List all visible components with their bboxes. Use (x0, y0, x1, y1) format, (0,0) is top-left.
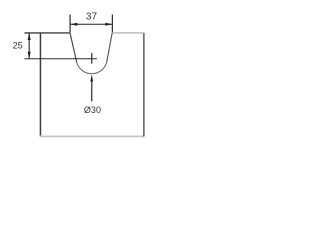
svg-text:Ø30: Ø30 (84, 105, 101, 115)
part body left edge (39, 33, 41, 137)
notch left slant edge (70, 33, 77, 62)
25-dim bottom arrowhead (28, 52, 31, 59)
notch bottom arc (R15.5) (77, 61, 107, 73)
37-dim right arrowhead (105, 23, 112, 26)
part body bottom edge (40, 135, 144, 137)
37-dim dimension line (70, 23, 112, 25)
diameter leader shaft (91, 80, 93, 101)
svg-text:37: 37 (86, 11, 98, 22)
37-dim right extension line (111, 14, 113, 32)
circle center mark vertical tick (91, 53, 93, 64)
notch right slant edge (107, 33, 112, 62)
25-dim dimension line (28, 33, 30, 59)
svg-text:25: 25 (13, 41, 23, 51)
37-dim left arrowhead (70, 23, 77, 26)
25-dim bottom extension line / circle center line (24, 58, 97, 60)
part top edge right of notch (112, 32, 144, 34)
part body right edge (143, 33, 145, 137)
25-dim top arrowhead (28, 33, 31, 40)
part top edge left of notch + 25-dim top extension line (24, 32, 70, 34)
37-dim left extension line (69, 14, 71, 32)
diameter leader arrowhead (90, 74, 93, 81)
